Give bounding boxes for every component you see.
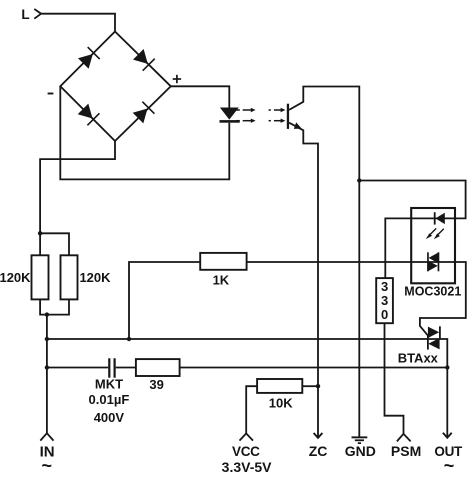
bridge diode D2 xyxy=(132,48,154,70)
wire snubber line xyxy=(47,367,447,369)
wire main line IN to triac MT1 and OUT xyxy=(47,339,447,437)
svg-text:0.01µF: 0.01µF xyxy=(89,392,130,407)
svg-text:120K: 120K xyxy=(0,270,31,285)
phototransistor Q1 base bar xyxy=(287,104,289,129)
node plus label xyxy=(173,75,181,83)
wire LED cathode down and left xyxy=(60,86,229,179)
resistor R2 120K (right) xyxy=(61,255,78,299)
LED D5 of optocoupler xyxy=(220,108,240,123)
node dot IN / snubber line xyxy=(45,365,49,369)
U1 light arrow 2 xyxy=(434,229,444,239)
wire branch to right 120K xyxy=(40,233,69,255)
wire 1K left to main line xyxy=(129,262,200,339)
node minus label xyxy=(48,93,54,95)
terminal PSM xyxy=(397,434,411,442)
U1 input LED xyxy=(434,212,445,224)
wire 10K right to ZC xyxy=(302,385,318,387)
resistor R5 10K xyxy=(257,379,302,393)
svg-text:VCC: VCC xyxy=(232,444,260,459)
svg-text:3: 3 xyxy=(381,293,388,308)
U1 light arrow 1 xyxy=(426,228,437,239)
svg-text:MKT: MKT xyxy=(95,377,123,392)
svg-text:~: ~ xyxy=(444,456,455,476)
phototransistor Q1 collector wire to GND rail xyxy=(289,87,359,437)
wire bridge bottom to 120K junction xyxy=(40,141,115,255)
U1 output diac xyxy=(427,252,439,271)
svg-text:L: L xyxy=(21,7,29,22)
capacitor C1 MKT plates xyxy=(108,358,116,377)
bridge diode D3 xyxy=(77,103,99,125)
svg-text:GND: GND xyxy=(345,443,376,459)
wire plus node to LED anode xyxy=(171,86,230,108)
svg-text:~: ~ xyxy=(42,456,53,476)
svg-text:0: 0 xyxy=(381,307,388,322)
phototransistor Q1 emitter wire to ZC xyxy=(289,123,318,437)
svg-text:3.3V-5V: 3.3V-5V xyxy=(222,459,272,475)
wire IN vertical xyxy=(46,315,48,434)
svg-text:ZC: ZC xyxy=(309,443,328,459)
Q1 emitter arrowhead xyxy=(294,122,302,128)
resistor R3 39 xyxy=(136,359,180,376)
light arrows LED to phototransistor row 2 xyxy=(236,119,285,123)
svg-text:10K: 10K xyxy=(269,396,293,411)
svg-text:400V: 400V xyxy=(94,410,125,425)
ground symbol xyxy=(352,436,368,444)
svg-text:PSM: PSM xyxy=(391,443,421,459)
bridge diode D1 xyxy=(77,47,99,69)
R6 value digits xyxy=(381,279,388,322)
wire 1K right to diac and triac MT2 xyxy=(247,262,466,335)
optocoupler U1 MOC3021 box xyxy=(411,208,455,283)
wire tee to MOC input and 330 xyxy=(359,181,465,279)
node dot at join xyxy=(45,312,49,316)
node dot OUT / snubber xyxy=(445,365,449,369)
node dot IN / main line xyxy=(45,337,49,341)
svg-text:120K: 120K xyxy=(79,270,111,285)
terminal OUT arrow xyxy=(443,433,452,438)
svg-text:MOC3021: MOC3021 xyxy=(404,285,461,299)
bridge diode D4 xyxy=(132,102,154,124)
resistor R1 120K (left) xyxy=(32,255,49,299)
wire 120K bottoms join xyxy=(40,299,69,314)
node dot 1K / main line xyxy=(127,337,131,341)
node dot collector rail tee xyxy=(357,178,361,182)
svg-text:39: 39 xyxy=(149,377,163,392)
light arrows LED to phototransistor row 1 xyxy=(236,108,285,112)
node dot ZC / 10K xyxy=(316,384,320,388)
resistor R6 330 xyxy=(376,278,393,323)
resistor R4 1K xyxy=(200,253,246,270)
svg-text:BTAxx: BTAxx xyxy=(398,350,439,365)
svg-text:1K: 1K xyxy=(213,273,230,288)
wire L to bridge top xyxy=(41,14,115,32)
wire 330 bottom to PSM xyxy=(385,323,404,434)
terminal IN xyxy=(40,433,53,440)
terminal VCC xyxy=(240,433,254,440)
terminal L xyxy=(34,9,41,19)
wire 10K left to VCC xyxy=(246,386,257,433)
svg-text:3: 3 xyxy=(381,279,388,294)
terminal ZC arrow xyxy=(314,433,323,438)
bridge rectifier diamond xyxy=(60,32,171,142)
node junction dot above 120K xyxy=(38,231,42,235)
triac T1 BTAxx xyxy=(427,326,441,349)
